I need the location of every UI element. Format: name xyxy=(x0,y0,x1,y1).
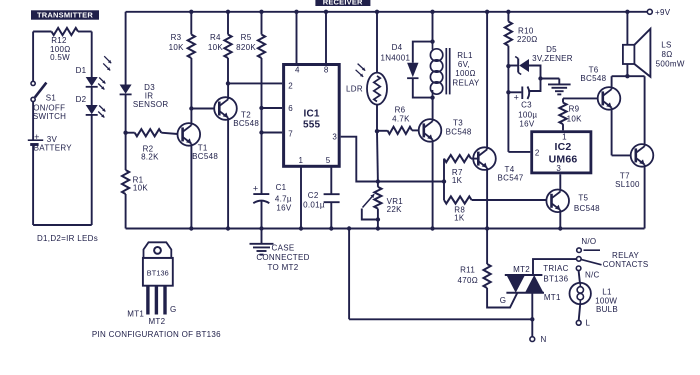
svg-text:8Ω: 8Ω xyxy=(661,50,672,59)
svg-text:6: 6 xyxy=(288,104,293,113)
svg-text:RELAY: RELAY xyxy=(612,251,640,260)
svg-text:LS: LS xyxy=(661,41,671,50)
svg-text:3: 3 xyxy=(556,164,561,173)
svg-text:MT1: MT1 xyxy=(544,293,561,302)
svg-text:D1,D2=IR LEDs: D1,D2=IR LEDs xyxy=(37,234,98,243)
svg-text:R12: R12 xyxy=(51,36,67,45)
svg-text:555: 555 xyxy=(303,120,321,131)
svg-text:R11: R11 xyxy=(460,265,475,274)
svg-text:10K: 10K xyxy=(169,43,184,52)
svg-text:3: 3 xyxy=(332,133,337,142)
svg-text:TRANSMITTER: TRANSMITTER xyxy=(37,11,93,20)
svg-text:R6: R6 xyxy=(395,106,406,115)
svg-text:PIN CONFIGURATION OF BT136: PIN CONFIGURATION OF BT136 xyxy=(92,330,221,339)
svg-text:1: 1 xyxy=(562,132,567,141)
svg-text:820K: 820K xyxy=(236,43,256,52)
svg-text:SL100: SL100 xyxy=(615,180,640,189)
svg-text:T5: T5 xyxy=(578,194,588,203)
svg-text:D4: D4 xyxy=(392,43,403,52)
svg-text:10K: 10K xyxy=(567,115,582,124)
svg-text:CONNECTED: CONNECTED xyxy=(256,253,309,262)
svg-text:R10: R10 xyxy=(518,26,534,35)
svg-text:RL1: RL1 xyxy=(457,51,473,60)
svg-text:BC548: BC548 xyxy=(580,74,606,83)
svg-text:T2: T2 xyxy=(241,110,251,119)
svg-text:C3: C3 xyxy=(521,101,532,110)
svg-text:RELAY: RELAY xyxy=(452,78,480,87)
svg-text:10K: 10K xyxy=(208,43,223,52)
svg-text:4: 4 xyxy=(295,66,300,75)
svg-text:1N4001: 1N4001 xyxy=(380,53,410,62)
svg-text:470Ω: 470Ω xyxy=(458,276,479,285)
svg-text:2: 2 xyxy=(288,81,293,90)
svg-text:BULB: BULB xyxy=(596,305,618,314)
svg-text:G: G xyxy=(170,305,177,314)
svg-text:1: 1 xyxy=(299,156,304,165)
svg-text:1K: 1K xyxy=(454,214,465,223)
svg-text:+: + xyxy=(514,92,519,102)
svg-text:6V,: 6V, xyxy=(458,60,470,69)
svg-text:0.01µ: 0.01µ xyxy=(303,200,325,209)
svg-text:C2: C2 xyxy=(308,191,319,200)
svg-text:MT1: MT1 xyxy=(127,309,144,318)
svg-text:D2: D2 xyxy=(76,95,87,104)
svg-text:N/C: N/C xyxy=(585,271,600,280)
svg-text:R9: R9 xyxy=(569,105,580,114)
svg-text:SENSOR: SENSOR xyxy=(133,100,169,109)
svg-text:N: N xyxy=(541,335,547,344)
svg-text:BC548: BC548 xyxy=(446,128,472,137)
svg-text:D1: D1 xyxy=(76,66,87,75)
svg-text:0.5W: 0.5W xyxy=(50,53,70,62)
svg-text:4.7µ: 4.7µ xyxy=(275,194,292,203)
svg-text:RECEIVER: RECEIVER xyxy=(323,0,363,7)
svg-text:D5: D5 xyxy=(546,45,557,54)
svg-text:TRIAC: TRIAC xyxy=(543,264,569,273)
svg-text:R3: R3 xyxy=(171,33,182,42)
svg-text:16V: 16V xyxy=(519,119,534,128)
svg-text:BC547: BC547 xyxy=(498,174,524,183)
svg-text:220Ω: 220Ω xyxy=(517,35,538,44)
svg-text:100Ω: 100Ω xyxy=(455,69,476,78)
svg-text:8.2K: 8.2K xyxy=(141,152,159,161)
svg-text:BC548: BC548 xyxy=(233,119,259,128)
svg-text:N/O: N/O xyxy=(581,237,596,246)
svg-text:T3: T3 xyxy=(453,119,463,128)
svg-text:L: L xyxy=(586,319,591,328)
svg-text:1K: 1K xyxy=(452,176,463,185)
svg-text:CONTACTS: CONTACTS xyxy=(603,260,649,269)
svg-text:100µ: 100µ xyxy=(518,110,537,119)
svg-text:500mW: 500mW xyxy=(656,60,685,69)
svg-text:UM66: UM66 xyxy=(549,153,578,165)
svg-text:+: + xyxy=(34,132,39,142)
svg-text:MT2: MT2 xyxy=(513,265,530,274)
svg-text:7: 7 xyxy=(288,130,293,139)
svg-text:10K: 10K xyxy=(133,183,148,192)
svg-text:3V,ZENER: 3V,ZENER xyxy=(532,54,573,63)
svg-text:LDR: LDR xyxy=(346,84,363,93)
svg-text:CASE: CASE xyxy=(272,243,295,252)
svg-text:IC2: IC2 xyxy=(555,141,572,153)
svg-text:IC1: IC1 xyxy=(304,109,320,120)
svg-text:+9V: +9V xyxy=(655,8,671,17)
svg-text:BC548: BC548 xyxy=(574,204,600,213)
svg-text:S1: S1 xyxy=(46,94,57,103)
svg-text:5: 5 xyxy=(326,156,331,165)
svg-text:C1: C1 xyxy=(276,183,287,192)
svg-text:BT136: BT136 xyxy=(543,275,568,284)
svg-text:2: 2 xyxy=(535,148,540,157)
svg-text:+: + xyxy=(253,184,258,194)
svg-text:R4: R4 xyxy=(210,33,221,42)
svg-text:SWITCH: SWITCH xyxy=(33,112,66,121)
svg-text:22K: 22K xyxy=(387,205,402,214)
svg-text:G: G xyxy=(500,296,507,305)
svg-text:TO MT2: TO MT2 xyxy=(268,263,299,272)
svg-text:100W: 100W xyxy=(595,296,617,305)
svg-text:BC548: BC548 xyxy=(192,152,218,161)
svg-text:4.7K: 4.7K xyxy=(392,115,410,124)
svg-text:L1: L1 xyxy=(602,288,612,297)
svg-text:BT136: BT136 xyxy=(147,268,169,277)
svg-text:R5: R5 xyxy=(241,33,252,42)
svg-text:16V: 16V xyxy=(276,204,291,213)
svg-text:BATTERY: BATTERY xyxy=(34,144,73,153)
svg-text:8: 8 xyxy=(324,66,329,75)
svg-text:MT2: MT2 xyxy=(148,317,165,326)
